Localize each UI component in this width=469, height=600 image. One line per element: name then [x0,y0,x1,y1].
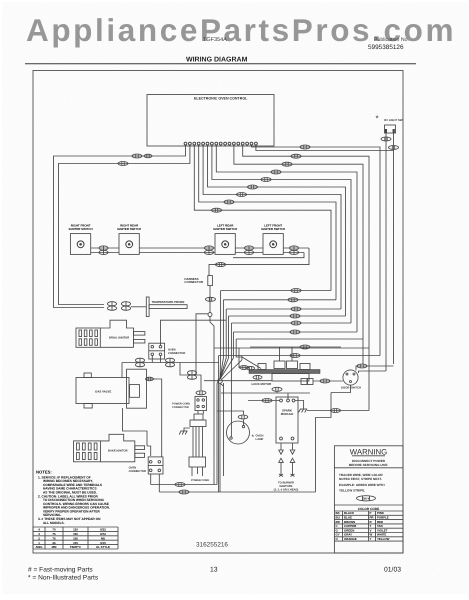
broil ignitor E1 [76,320,145,347]
connector on middle link [288,298,298,302]
svg-text:CONNECTOR: CONNECTOR [168,352,185,355]
connector below harness [206,297,216,301]
svg-text:316255216: 316255216 [196,542,228,549]
wire gauge table [33,527,118,549]
connector on middle link [290,314,300,318]
bottom wire 1 [151,484,217,486]
wires fanning from junction [217,379,224,492]
wire right drop to bottom 2 [316,393,332,493]
svg-text:13: 13 [210,567,218,574]
switch bus wires S2-S3 [139,248,215,253]
svg-text:156: 156 [73,536,78,540]
connector power connector top [196,391,206,395]
wire ground bus to right [307,410,369,412]
switch bus wires S1-S2 [91,248,119,253]
svg-text:75: 75 [52,532,56,536]
svg-text:ALL MODELS.: ALL MODELS. [43,521,65,525]
ground symbol spark [299,409,308,413]
svg-text:155: 155 [73,532,78,536]
svg-text:UL STYLE: UL STYLE [96,545,110,549]
connector bottom wire 2 [179,490,189,494]
wire light switch right to door area [356,366,394,371]
wire oven connector up [161,320,227,345]
oven light switch S5 [385,125,396,133]
temp probe connector pair A [107,302,116,311]
wire long horizontal y380.7 [204,380,272,382]
svg-text:IGNITER SWITCH: IGNITER SWITCH [213,227,237,231]
lock motor M1 [242,347,341,385]
wire bundle middle verticals [214,291,242,493]
connector on bundle wire 4 [248,185,258,189]
connector on loop [216,263,226,267]
connector on bundle wire 8 [291,154,301,158]
svg-text:CONNECTOR: CONNECTOR [172,406,189,409]
temperature probe [146,297,187,317]
switch loop inner [233,253,304,258]
wire EOC to temp probe outer [54,145,186,307]
svg-text:LOCK MOTOR: LOCK MOTOR [252,382,273,386]
ground symbol power cord [179,428,190,435]
svg-text:*: * [376,114,379,123]
wire into lock motor bar [239,365,249,370]
igniter switch S1 RIGHT FRONT [69,224,93,255]
wire spark ground [295,401,304,409]
wire lock motor riser B [238,348,240,365]
svg-text:DOOR SWITCH: DOOR SWITCH [341,386,361,390]
svg-text:Publication No.: Publication No. [374,37,409,43]
wire to probe [131,306,147,308]
connector on lock motor line [300,345,310,349]
connector oven lamp [238,415,248,419]
svg-text:TEMPERATURE PROBE: TEMPERATURE PROBE [152,300,185,304]
power cord connector J4 [195,396,206,410]
wire gas valve right [147,378,158,380]
svg-text:WIRING DIAGRAM: WIRING DIAGRAM [186,57,248,64]
connector door switch [357,364,367,368]
electronic oven control U1 [147,95,274,147]
electrode arrows up [279,458,295,476]
svg-text:BAKE IGNITOR: BAKE IGNITOR [108,450,128,453]
warning box [334,446,403,553]
connector on bundle wire 1 [212,208,222,212]
svg-text:NOTED FIRST, STRIPE NEXT.: NOTED FIRST, STRIPE NEXT. [339,477,382,481]
svg-text:WARNING: WARNING [350,448,387,457]
connector on bundle wire 3 [237,193,247,197]
color code table [334,505,403,541]
svg-text:5995385126: 5995385126 [368,44,404,51]
svg-text:CONNECTOR: CONNECTOR [184,280,203,284]
svg-text:(2, 3, 4 OR 5 HEAD): (2, 3, 4 OR 5 HEAD) [274,489,299,492]
wire EOC to temp probe inner [59,145,190,304]
connector pair oven bus A [135,358,144,367]
EOC terminal row [184,142,257,145]
bake ignitor E2 [74,434,145,462]
connector lock motor left [240,366,249,370]
svg-text:8/72: 8/72 [100,532,106,536]
wire oven lamp left riser [230,323,232,437]
connector on middle link [290,330,300,334]
svg-text:# = Fast-moving Parts: # = Fast-moving Parts [28,567,93,574]
svg-text:76: 76 [52,536,56,540]
connector on middle link [291,289,301,293]
wire lock motor riser A [236,339,242,357]
gas valve V1 [76,369,147,408]
svg-text:Y: Y [370,537,372,541]
connector on left wire 2 [118,162,128,166]
igniter switch S3 LEFT REAR [213,224,237,255]
svg-text:TGF354A: TGF354A [203,37,227,43]
power cord P1 [189,411,206,476]
svg-text:ORANGE: ORANGE [344,537,357,541]
connector lock motor bottom [272,387,282,391]
svg-text:IGNITER SWITCH: IGNITER SWITCH [69,227,93,231]
connector gas valve right [146,377,154,381]
connector light switch 2 [389,146,399,150]
svg-text:GN-Y: GN-Y [363,497,370,501]
switch loop outer [209,248,309,276]
connector pair S1-S2 [99,246,108,255]
door switch S6 [343,370,358,385]
page border [33,71,403,554]
spark output arrows [279,443,295,454]
connector bottom wire 1 [175,483,185,487]
connector lock motor left b [247,366,255,370]
svg-text:CONNECTOR: CONNECTOR [129,470,146,473]
wire oven connector bus [122,356,219,363]
svg-text:IGNITER SWITCH: IGNITER SWITCH [261,227,285,231]
wire lock motor to door switch [313,380,343,382]
example wire oval GN-Y [357,496,376,501]
wire junction to power connector drop [196,314,208,375]
connector lock motor mid [253,375,262,379]
notes text block [36,470,110,525]
connector spark module [262,399,272,403]
wire bundle middle link horizontals [214,291,380,356]
connector on middle link [290,354,300,358]
svg-text:M5: M5 [101,536,105,540]
svg-text:BEFORE SERVICING UNIT.: BEFORE SERVICING UNIT. [349,463,388,467]
wires quick connector bottom [151,474,160,492]
wire lock motor bottom [276,391,278,393]
wire gas valve to quick connector [157,379,162,457]
connector pair oven bus B [165,358,174,367]
switch bus wires S3-S4 [235,248,263,253]
connector on bundle wire 2 [224,200,234,204]
wire bus drop to power cord connector [180,363,201,391]
igniter switch S2 RIGHT REAR [117,224,141,255]
wire harness drop [210,286,214,348]
connector pair above power connector [187,371,196,380]
svg-text:POWER CORD: POWER CORD [191,479,209,482]
connector on bundle wire 5 [261,178,271,182]
temp probe connector pair B [121,302,130,311]
wire EOC to light switch [256,145,394,150]
wires from light switch [386,133,394,371]
connector ground bus [331,409,341,413]
connector on middle link [291,321,301,325]
connector pair S3-S4 [244,246,253,255]
svg-text:YELLOW STRIPE.: YELLOW STRIPE. [339,489,365,493]
svg-text:AWG: AWG [36,545,44,549]
wire spark module feed [248,400,280,402]
connector light switch 1 [381,137,391,141]
wire oven lamp feed [217,411,244,425]
connector on bundle wire 7 [282,162,292,166]
oven connector J2 [149,343,165,359]
connector on bundle wire 6 [271,170,281,174]
svg-text:01/03: 01/03 [384,567,401,574]
wire door switch bottom [331,385,351,392]
harness connector J1 [208,276,213,286]
svg-text:OV LIGHT SW: OV LIGHT SW [384,118,403,122]
svg-text:ELECTRONIC OVEN CONTROL: ELECTRONIC OVEN CONTROL [194,97,248,101]
svg-text:105: 105 [73,541,78,545]
junction circle harness [208,313,212,317]
igniter switch S4 LEFT FRONT [261,224,285,255]
svg-text:9/15: 9/15 [100,541,106,545]
svg-text:GAS VALVE: GAS VALVE [95,389,111,393]
bottom wire 2 [159,491,315,493]
wire bundle EOC right side [194,145,380,410]
svg-text:8/32: 8/32 [100,528,106,532]
svg-text:TEMP°C: TEMP°C [70,545,82,549]
connector on left wire 1a [132,154,142,158]
svg-text:MM: MM [52,545,57,549]
svg-text:120: 120 [73,528,78,532]
svg-text:EXAMPLE: GREEN WIRE WITH: EXAMPLE: GREEN WIRE WITH [339,483,385,487]
spark module U2 [276,397,298,443]
svg-text:26: 26 [52,541,56,545]
svg-text:LAMP: LAMP [256,437,264,441]
connector pair S2-S3 [204,246,213,255]
svg-text:MODULE: MODULE [281,412,294,416]
junction node middle [218,379,223,384]
wire spark module top [221,393,310,399]
switch bus wires S4 out [283,248,309,253]
svg-text:NOTES:: NOTES: [36,470,52,475]
svg-text:70: 70 [52,528,56,532]
wire gas valve top [121,363,123,378]
connector pair S4 out [289,246,298,255]
header rule [25,63,416,65]
wire to quick connector left [147,446,151,456]
svg-text:YELLOW: YELLOW [377,537,390,541]
wire gas valve bottom drop [123,408,148,446]
connector on left wire 1b [144,154,152,158]
connector on middle link [291,307,301,311]
svg-text:IGNITER SWITCH: IGNITER SWITCH [117,227,141,231]
connector lock motor right [320,379,330,383]
quick connector J3 [148,457,163,474]
svg-text:BROIL IGNITOR: BROIL IGNITOR [109,337,129,340]
oven lamp DS1 [227,421,250,444]
svg-text:* = Non-Illustrated Parts: * = Non-Illustrated Parts [28,575,99,582]
connector on bundle wire 9 [300,145,310,149]
